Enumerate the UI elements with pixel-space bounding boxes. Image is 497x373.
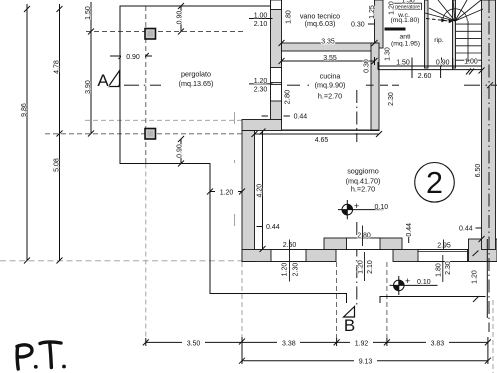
svg-text:3.90: 3.90: [85, 80, 92, 94]
svg-text:4.78: 4.78: [54, 60, 61, 74]
svg-text:(mq.9.90): (mq.9.90): [315, 81, 346, 90]
svg-text:1.00: 1.00: [464, 58, 478, 65]
svg-text:0.44: 0.44: [459, 226, 473, 233]
svg-text:2.60: 2.60: [418, 73, 432, 80]
svg-text:1.50: 1.50: [85, 6, 92, 20]
svg-text:0.90: 0.90: [126, 54, 140, 61]
svg-text:1.20: 1.20: [357, 260, 364, 274]
svg-text:3.83: 3.83: [431, 340, 445, 347]
svg-text:0.90: 0.90: [436, 60, 450, 67]
svg-text:9.86: 9.86: [21, 103, 28, 117]
svg-text:0.90: 0.90: [177, 11, 184, 25]
svg-text:1.20: 1.20: [254, 78, 268, 85]
svg-text:anti: anti: [400, 34, 411, 41]
svg-text:3.55: 3.55: [323, 55, 337, 62]
svg-text:cucina: cucina: [320, 72, 341, 81]
svg-text:1.20: 1.20: [472, 270, 479, 284]
svg-text:B: B: [344, 316, 355, 335]
svg-text:1.00: 1.00: [254, 13, 268, 20]
svg-text:1.20: 1.20: [220, 189, 234, 196]
svg-text:0.30: 0.30: [351, 22, 365, 29]
svg-text:0.30: 0.30: [364, 59, 371, 73]
svg-text:4.65: 4.65: [315, 137, 329, 144]
svg-text:0.44: 0.44: [294, 114, 308, 121]
svg-text:(mq.1.80): (mq.1.80): [390, 17, 419, 24]
svg-text:h.=2.70: h.=2.70: [351, 185, 375, 194]
svg-text:(mq.1.95): (mq.1.95): [391, 41, 420, 48]
svg-text:2.10: 2.10: [254, 21, 268, 28]
svg-text:h.=2.70: h.=2.70: [318, 92, 342, 101]
svg-text:pergolato: pergolato: [181, 70, 211, 79]
svg-text:0.10: 0.10: [375, 204, 389, 211]
svg-text:1.80: 1.80: [436, 263, 443, 277]
svg-text:rip.: rip.: [434, 37, 444, 44]
svg-text:A: A: [97, 71, 109, 90]
svg-text:+: +: [354, 201, 359, 211]
svg-text:2.80: 2.80: [357, 233, 371, 240]
svg-text:2: 2: [426, 166, 443, 200]
svg-text:2.95: 2.95: [437, 243, 451, 250]
svg-text:2.30: 2.30: [445, 261, 452, 275]
svg-text:(mq.13.65): (mq.13.65): [179, 79, 214, 88]
svg-text:0.90: 0.90: [177, 144, 184, 158]
svg-text:soggiorno: soggiorno: [347, 167, 379, 176]
svg-text:3.35: 3.35: [321, 39, 335, 46]
svg-text:6.50: 6.50: [475, 164, 482, 178]
svg-text:(mq.6.03): (mq.6.03): [305, 19, 336, 28]
svg-text:3.50: 3.50: [187, 340, 201, 347]
svg-text:1.25: 1.25: [369, 5, 376, 19]
svg-text:2.30: 2.30: [293, 263, 300, 277]
svg-text:2.30: 2.30: [254, 86, 268, 93]
svg-text:+: +: [405, 276, 410, 286]
svg-text:2.10: 2.10: [367, 260, 374, 274]
svg-text:1.50: 1.50: [401, 0, 415, 5]
svg-text:1.20: 1.20: [388, 1, 395, 15]
svg-text:5.08: 5.08: [54, 158, 61, 172]
svg-text:generatore: generatore: [395, 4, 420, 10]
svg-text:1.92: 1.92: [355, 340, 369, 347]
svg-text:4.20: 4.20: [256, 184, 263, 198]
svg-text:2.80: 2.80: [283, 90, 292, 105]
svg-text:0.44: 0.44: [406, 223, 413, 237]
svg-text:3.38: 3.38: [282, 340, 296, 347]
svg-text:2.30: 2.30: [388, 92, 395, 106]
svg-text:0.10: 0.10: [417, 279, 431, 286]
svg-text:1.20: 1.20: [282, 263, 289, 277]
svg-text:1.30: 1.30: [385, 47, 392, 61]
svg-text:0.44: 0.44: [266, 224, 280, 231]
svg-text:1.80: 1.80: [286, 10, 293, 24]
svg-text:1.50: 1.50: [396, 60, 410, 67]
svg-text:9.13: 9.13: [359, 359, 373, 366]
